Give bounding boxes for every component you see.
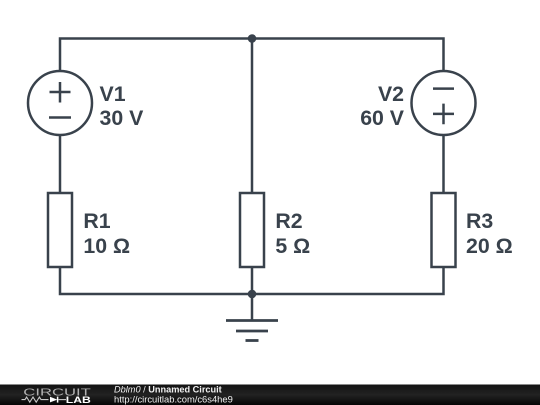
svg-text:R2: R2 bbox=[275, 209, 302, 233]
svg-text:30 V: 30 V bbox=[100, 106, 145, 130]
wire V2 to R3 bbox=[442, 135, 445, 193]
wire middle branch top bbox=[251, 39, 254, 194]
resistor R1 bbox=[48, 193, 72, 267]
CircuitLab logo diode bbox=[50, 397, 66, 403]
ground bbox=[226, 294, 278, 341]
CircuitLab logo resistor zigzag bbox=[22, 397, 49, 402]
voltage source V1 bbox=[28, 71, 92, 135]
node junction top bbox=[248, 34, 257, 43]
svg-text:http://circuitlab.com/c6s4he9: http://circuitlab.com/c6s4he9 bbox=[114, 393, 233, 404]
voltage source V2 bbox=[412, 71, 476, 135]
svg-text:5 Ω: 5 Ω bbox=[275, 234, 310, 258]
svg-text:10 Ω: 10 Ω bbox=[83, 234, 130, 258]
resistor R2 bbox=[240, 193, 264, 267]
svg-text:20 Ω: 20 Ω bbox=[466, 234, 513, 258]
svg-text:R1: R1 bbox=[83, 209, 110, 233]
resistor R3 bbox=[432, 193, 456, 267]
wire V1 to R1 bbox=[59, 135, 62, 193]
svg-text:V2: V2 bbox=[378, 82, 404, 106]
svg-text:LAB: LAB bbox=[66, 395, 91, 405]
wire top bus bbox=[60, 39, 444, 72]
svg-text:60 V: 60 V bbox=[360, 106, 405, 130]
node junction bottom bbox=[248, 290, 257, 299]
svg-text:V1: V1 bbox=[100, 82, 126, 106]
svg-text:R3: R3 bbox=[466, 209, 493, 233]
wire bottom bus bbox=[60, 267, 444, 294]
wire R2 to bottom bus bbox=[251, 267, 254, 294]
